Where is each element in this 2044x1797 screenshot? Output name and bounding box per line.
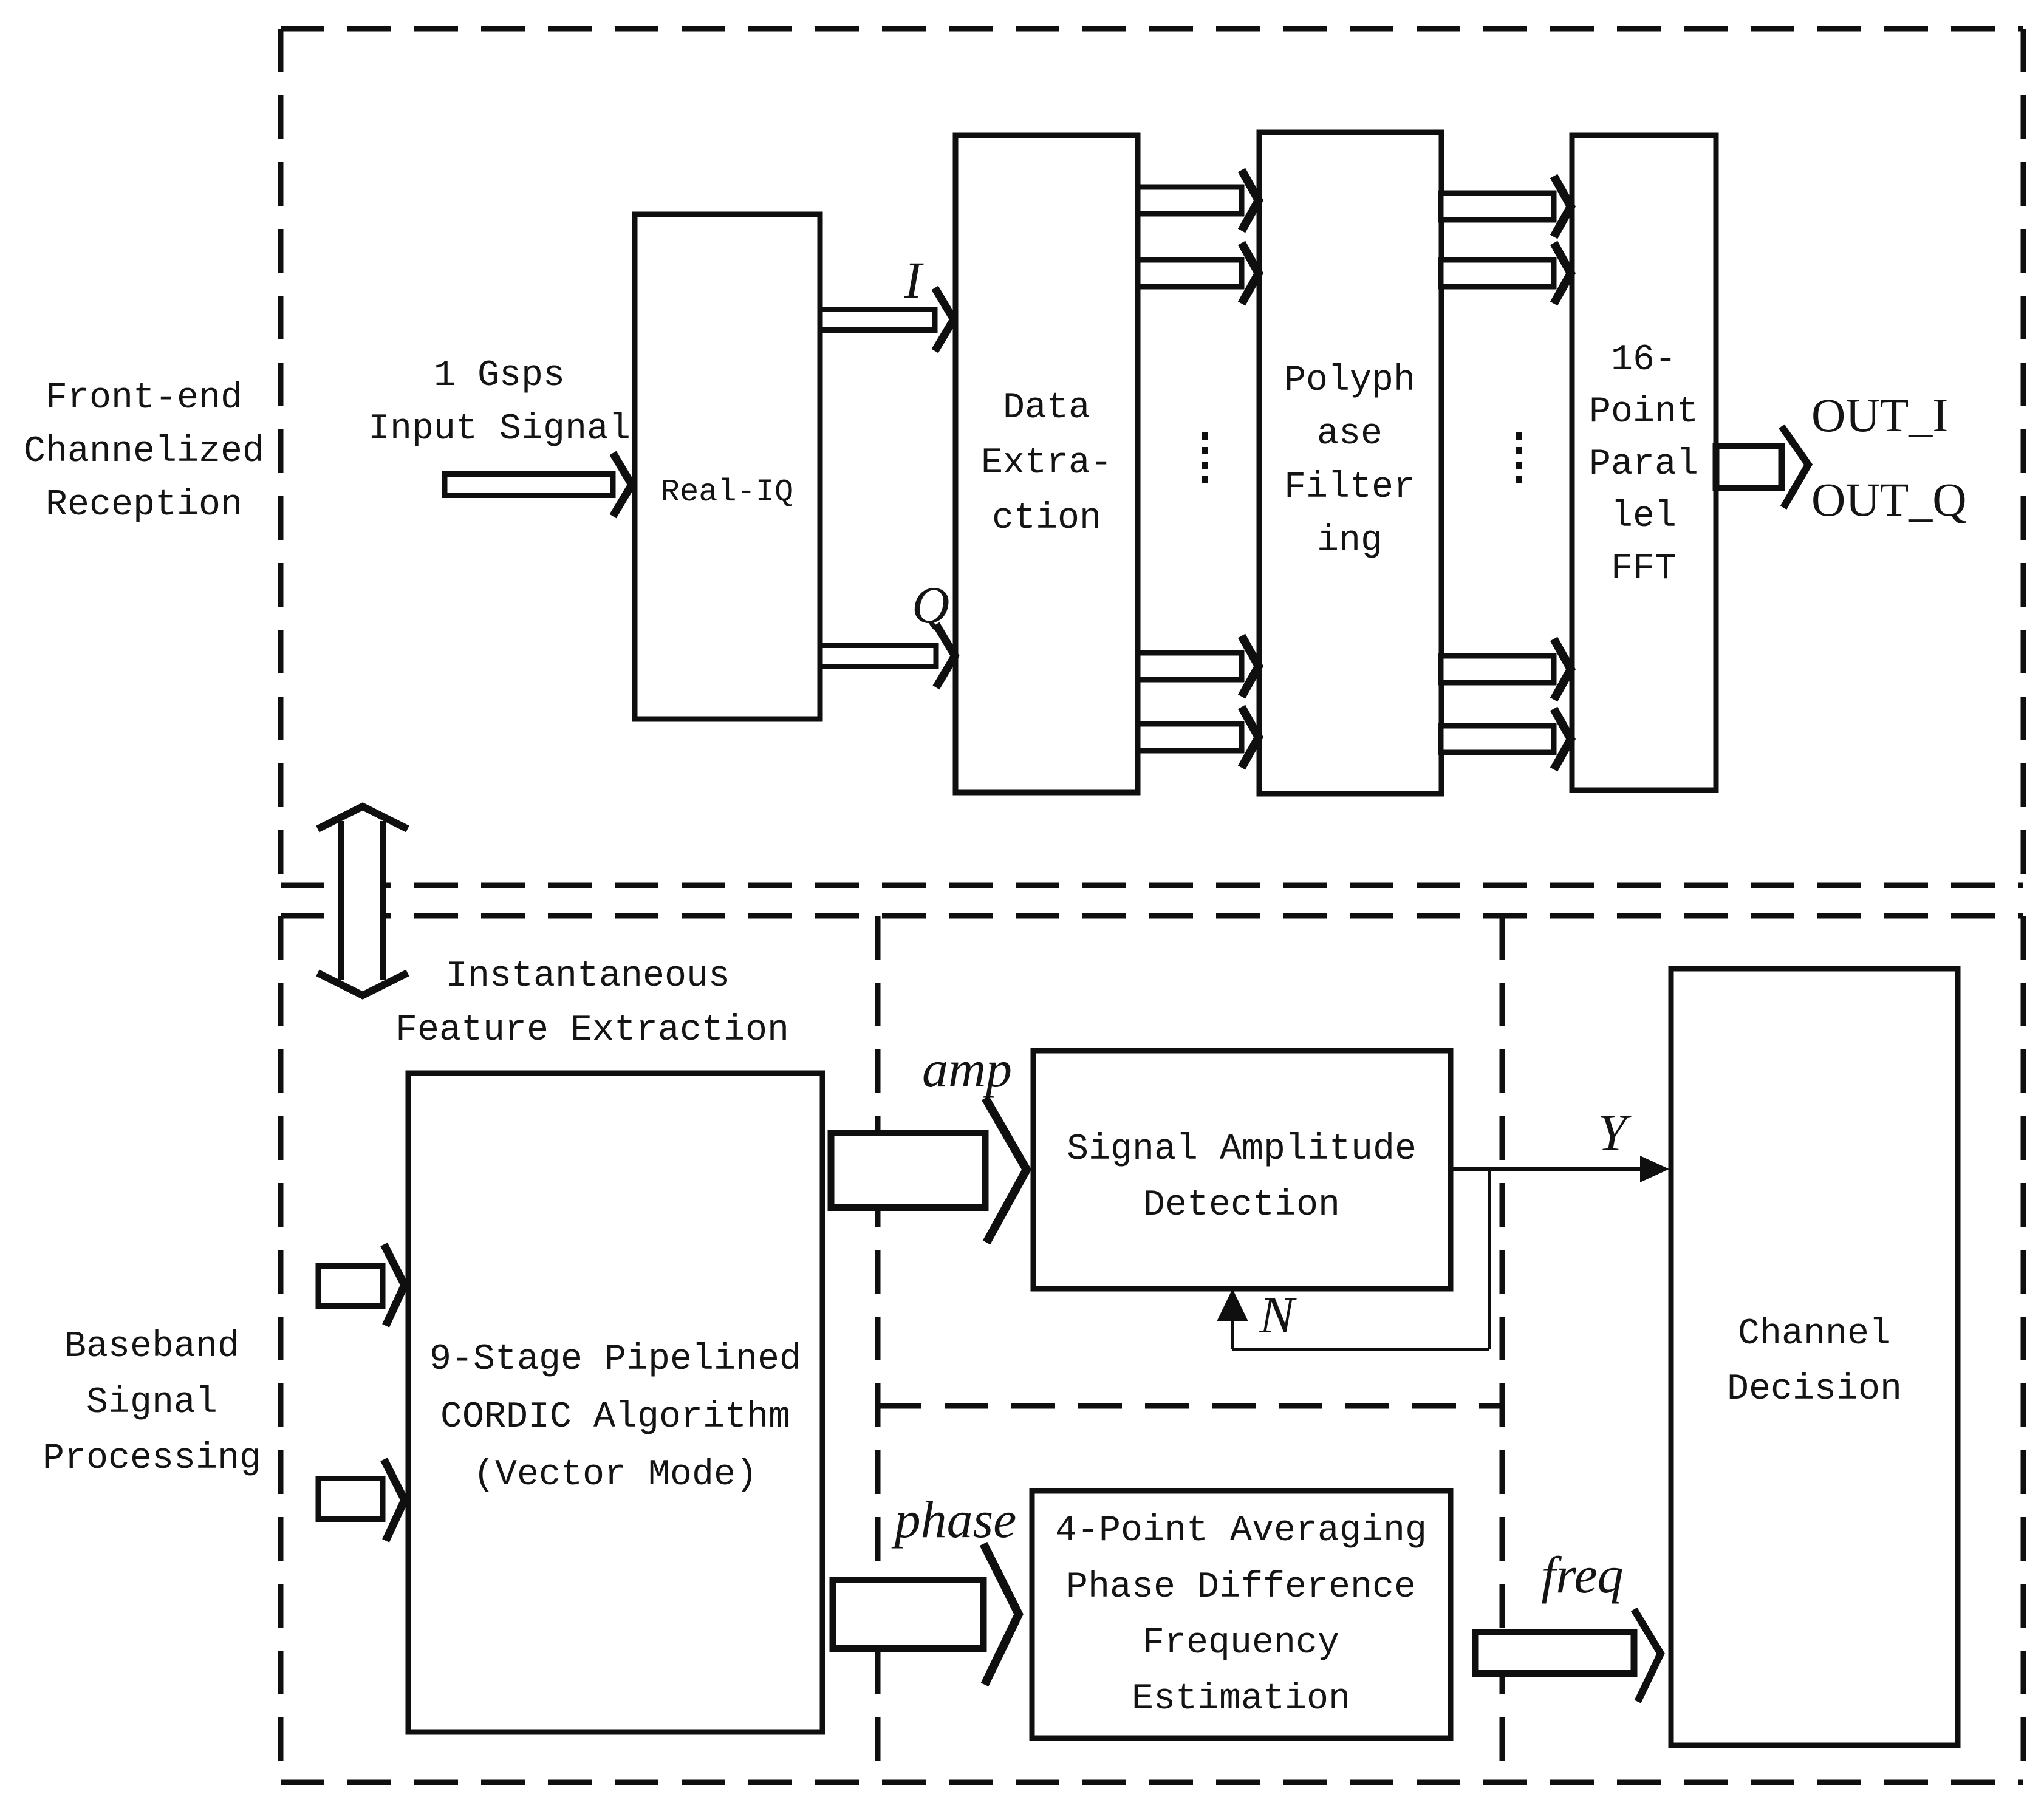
wire: N feedback up segment into box xyxy=(1231,1312,1234,1349)
svg-text:Channel: Channel xyxy=(1738,1314,1891,1355)
svg-text:Signal Amplitude: Signal Amplitude xyxy=(1067,1129,1417,1170)
svg-text:FFT: FFT xyxy=(1611,548,1677,590)
block: Polyphase Filtering xyxy=(1259,132,1441,794)
block: Data Extraction xyxy=(955,135,1138,793)
svg-text:Estimation: Estimation xyxy=(1132,1679,1350,1720)
arrow: FFT output xyxy=(1716,426,1808,508)
svg-text:4-Point Averaging: 4-Point Averaging xyxy=(1055,1510,1427,1552)
arrow: freq from 4-Point estimator to Channel Decision xyxy=(1475,1609,1661,1702)
svg-text:Detection: Detection xyxy=(1143,1185,1340,1226)
bus arrow 2: Polyphase Filtering to FFT xyxy=(1441,243,1571,304)
svg-text:freq: freq xyxy=(1541,1546,1623,1604)
dashed frame: Baseband Signal Processing section xyxy=(281,916,2023,1782)
bus arrow 4: Data Extraction to Polyphase Filtering xyxy=(1138,707,1259,768)
svg-text:Baseband: Baseband xyxy=(64,1326,239,1368)
svg-text:Point: Point xyxy=(1589,392,1698,433)
svg-text:1 Gsps: 1 Gsps xyxy=(434,355,565,397)
svg-text:Real-IQ: Real-IQ xyxy=(661,474,793,510)
svg-text:Filter: Filter xyxy=(1284,467,1415,508)
svg-text:I: I xyxy=(904,251,924,309)
svg-text:16-: 16- xyxy=(1611,339,1677,381)
svg-text:ing: ing xyxy=(1317,520,1383,562)
svg-text:Decision: Decision xyxy=(1727,1369,1902,1410)
svg-text:Channelized: Channelized xyxy=(24,431,264,472)
block: 4-Point Averaging Phase Difference Frequency Estimation xyxy=(1032,1491,1451,1738)
svg-text:Instantaneous: Instantaneous xyxy=(446,956,730,997)
svg-text:OUT_Q: OUT_Q xyxy=(1811,473,1967,526)
block: Channel Decision xyxy=(1671,969,1958,1745)
dashed divider between amplitude and frequency sub-areas xyxy=(878,1403,1502,1409)
wire: N feedback down segment xyxy=(1488,1169,1491,1349)
svg-text:Input Signal: Input Signal xyxy=(368,409,631,450)
svg-text:phase: phase xyxy=(891,1490,1017,1549)
block: Real-IQ xyxy=(635,214,820,719)
label: Front-end Channelized Reception xyxy=(24,378,264,526)
svg-text:Reception: Reception xyxy=(46,485,242,526)
wire: N feedback bottom segment xyxy=(1232,1348,1489,1351)
svg-text:9-Stage Pipelined: 9-Stage Pipelined xyxy=(429,1339,801,1380)
bus arrow 4: Polyphase Filtering to FFT xyxy=(1441,709,1571,769)
svg-text:Frequency: Frequency xyxy=(1143,1623,1339,1664)
svg-text:Polyph: Polyph xyxy=(1284,360,1415,401)
block: 9-Stage Pipelined CORDIC Algorithm (Vector Mode) xyxy=(408,1073,822,1732)
arrow: amp from CORDIC to Signal Amplitude Detection xyxy=(831,1098,1027,1243)
dashed frame: inner feature-extraction box right edge xyxy=(1500,916,1505,1782)
block: Signal Amplitude Detection xyxy=(1033,1051,1451,1289)
svg-text:Phase Difference: Phase Difference xyxy=(1066,1567,1416,1608)
label: Baseband Signal Processing xyxy=(43,1326,261,1479)
arrow: phase from CORDIC to 4-Point estimator xyxy=(833,1544,1019,1685)
arrow: lower input into CORDIC xyxy=(318,1459,405,1541)
svg-text:Extra-: Extra- xyxy=(981,443,1112,484)
label: 1 Gsps Input Signal xyxy=(368,355,631,450)
label: Instantaneous Feature Extraction xyxy=(395,956,789,1051)
svg-text:Front-end: Front-end xyxy=(46,378,242,419)
svg-text:Processing: Processing xyxy=(43,1438,261,1479)
bus arrow 1: Data Extraction to Polyphase Filtering xyxy=(1138,170,1259,231)
svg-text:Paral: Paral xyxy=(1589,444,1698,485)
bus arrow 2: Data Extraction to Polyphase Filtering xyxy=(1138,243,1259,304)
arrow: upper input into CORDIC xyxy=(318,1244,405,1326)
svg-text:CORDIC Algorithm: CORDIC Algorithm xyxy=(440,1397,790,1438)
vertical ellipsis between Data Extraction and Polyphase xyxy=(1202,432,1208,483)
svg-text:Feature Extraction: Feature Extraction xyxy=(395,1010,789,1051)
vertical ellipsis between Polyphase and FFT xyxy=(1516,432,1522,483)
arrow: I from Real-IQ to Data Extraction xyxy=(820,288,954,351)
svg-text:amp: amp xyxy=(922,1040,1012,1098)
svg-text:Q: Q xyxy=(912,576,949,634)
svg-text:(Vector Mode): (Vector Mode) xyxy=(473,1454,757,1496)
svg-text:Y: Y xyxy=(1598,1103,1632,1162)
bus arrow 3: Polyphase Filtering to FFT xyxy=(1441,639,1571,700)
dashed frame: inner feature-extraction box left edge xyxy=(875,916,881,1782)
dashed frame: Front-end Channelized Reception section xyxy=(281,29,2023,885)
svg-text:Data: Data xyxy=(1003,387,1090,429)
arrow: Q from Real-IQ to Data Extraction xyxy=(820,624,955,687)
svg-text:N: N xyxy=(1259,1286,1297,1344)
arrow: 1 Gsps input into Real-IQ xyxy=(445,453,632,516)
bus arrow 1: Polyphase Filtering to FFT xyxy=(1441,176,1571,237)
svg-text:ase: ase xyxy=(1317,414,1383,455)
bus arrow 3: Data Extraction to Polyphase Filtering xyxy=(1138,636,1259,697)
wire: Y from Signal Amplitude Detection to Channel Decision xyxy=(1453,1167,1647,1171)
block: 16-Point Parallel FFT xyxy=(1572,135,1716,790)
double-headed arrow between sections xyxy=(318,806,408,995)
svg-text:ction: ction xyxy=(992,498,1101,539)
svg-text:Signal: Signal xyxy=(86,1382,217,1424)
svg-text:lel: lel xyxy=(1611,496,1677,537)
svg-text:OUT_I: OUT_I xyxy=(1811,389,1948,442)
